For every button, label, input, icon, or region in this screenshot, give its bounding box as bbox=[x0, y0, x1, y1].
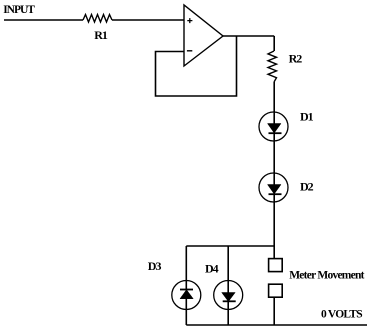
wire input to R1 bbox=[4, 19, 83, 21]
wire feedback loop bbox=[156, 36, 237, 96]
diode D4 bbox=[214, 281, 243, 310]
resistor R1 bbox=[83, 15, 112, 23]
svg-text:Meter Movement: Meter Movement bbox=[289, 270, 364, 282]
wire op-amp output bbox=[223, 35, 274, 37]
svg-text:D2: D2 bbox=[300, 179, 314, 193]
op-amp U1 bbox=[184, 5, 223, 66]
wire meter to bottom bus bbox=[273, 297, 275, 325]
svg-text:R1: R1 bbox=[94, 28, 108, 42]
meter movement terminal 2 bbox=[269, 284, 283, 297]
svg-text:0 VOLTS: 0 VOLTS bbox=[321, 309, 362, 321]
diode D2 bbox=[259, 173, 288, 202]
svg-text:INPUT: INPUT bbox=[3, 4, 35, 16]
wire left branch (through D3) bbox=[185, 246, 187, 325]
diode D3 bbox=[172, 281, 201, 310]
wire R2 to D1 bbox=[273, 82, 275, 112]
resistor R2 bbox=[268, 51, 277, 82]
wire R1 to op-amp bbox=[112, 19, 184, 21]
meter movement terminal 1 bbox=[269, 259, 283, 272]
svg-text:D4: D4 bbox=[205, 262, 219, 276]
svg-text:D3: D3 bbox=[148, 259, 162, 273]
wire D2 down to junction bbox=[273, 202, 275, 246]
wire bottom bus (0 volts) bbox=[186, 324, 367, 326]
wire junction to meter bbox=[273, 246, 275, 259]
svg-text:R2: R2 bbox=[289, 51, 303, 65]
wire top rail of diode branch bbox=[186, 245, 274, 247]
wire middle branch (through D4) bbox=[227, 246, 229, 325]
diode D1 bbox=[259, 112, 288, 141]
wire output to R2 bbox=[273, 36, 275, 51]
wire D1 to D2 bbox=[273, 141, 275, 173]
svg-text:D1: D1 bbox=[300, 110, 314, 124]
